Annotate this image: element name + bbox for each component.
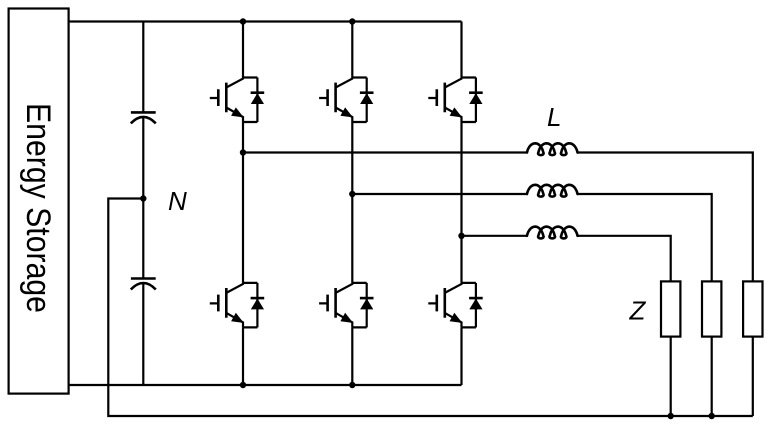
wire phase A to inductor bbox=[243, 151, 527, 153]
wire inductor L1 to load bbox=[578, 153, 753, 282]
node N junction bbox=[140, 195, 146, 201]
diode D3 (freewheel, upper leg 2) bbox=[360, 78, 374, 123]
resistor Z3 (load phase A) bbox=[743, 281, 762, 336]
junction bottom rail leg 1 bbox=[240, 382, 246, 388]
transistor Q1 (upper IGBT leg 1) bbox=[210, 78, 258, 123]
wire leg 2 middle (phase B) bbox=[351, 122, 353, 283]
svg-text:L: L bbox=[547, 102, 561, 132]
wire bottom DC rail bbox=[69, 384, 462, 386]
diode D1 (freewheel, upper leg 1) bbox=[251, 78, 265, 123]
wire leg 1 middle (phase A) bbox=[242, 122, 244, 283]
diode D5 (freewheel, upper leg 3) bbox=[469, 78, 483, 123]
node phase C junction bbox=[458, 233, 464, 239]
diode D6 (freewheel, lower leg 3) bbox=[469, 283, 483, 328]
junction bottom rail leg 2 bbox=[349, 382, 355, 388]
svg-text:Energy Storage: Energy Storage bbox=[19, 103, 57, 313]
junction top rail leg 1 bbox=[240, 18, 246, 24]
wire leg 3 middle (phase C) bbox=[460, 122, 462, 283]
junction neutral load Z2 bbox=[709, 413, 715, 419]
wire inductor L3 to load bbox=[578, 236, 671, 282]
transistor Q5 (upper IGBT leg 3) bbox=[428, 78, 476, 123]
inductor L2 (phase B) bbox=[527, 185, 578, 197]
wire capacitor branch lower bbox=[142, 283, 144, 385]
wire phase C to inductor bbox=[462, 235, 528, 237]
wire between capacitors bbox=[142, 117, 144, 279]
node phase B junction bbox=[349, 191, 355, 197]
wire neutral return bbox=[108, 199, 753, 417]
wire leg 3 top (collector) bbox=[460, 22, 462, 78]
capacitor C1 bbox=[131, 112, 156, 123]
wire top DC rail bbox=[69, 20, 462, 22]
energy storage box bbox=[9, 9, 69, 394]
wire load Z1 to neutral bbox=[670, 337, 672, 416]
junction top rail leg 2 bbox=[349, 18, 355, 24]
inductor L3 (phase C) bbox=[527, 227, 578, 239]
transistor Q6 (lower IGBT leg 3) bbox=[428, 283, 476, 328]
wire leg 2 top (collector) bbox=[351, 22, 353, 78]
wire load Z3 to neutral bbox=[752, 337, 754, 416]
wire inductor L2 to load bbox=[578, 194, 712, 281]
inductor L1 (phase A) bbox=[527, 143, 578, 155]
wire leg 1 bottom (emitter) bbox=[242, 327, 244, 385]
wire leg 1 top (collector) bbox=[242, 22, 244, 78]
node phase A junction bbox=[240, 149, 246, 155]
wire capacitor branch upper bbox=[142, 22, 144, 113]
diode D4 (freewheel, lower leg 2) bbox=[360, 283, 374, 328]
resistor Z1 (load phase C) bbox=[661, 281, 680, 336]
wire leg 2 bottom (emitter) bbox=[351, 327, 353, 385]
wire load Z2 to neutral bbox=[711, 337, 713, 416]
wire phase B to inductor bbox=[352, 193, 527, 195]
transistor Q4 (lower IGBT leg 2) bbox=[319, 283, 367, 328]
svg-text:Z: Z bbox=[629, 296, 647, 326]
svg-text:N: N bbox=[168, 186, 187, 216]
diode D2 (freewheel, lower leg 1) bbox=[251, 283, 265, 328]
transistor Q2 (lower IGBT leg 1) bbox=[210, 283, 258, 328]
wire leg 3 bottom (emitter) bbox=[460, 327, 462, 385]
capacitor C2 bbox=[131, 279, 156, 290]
resistor Z2 (load phase B) bbox=[702, 281, 721, 336]
junction neutral load Z1 bbox=[668, 413, 674, 419]
transistor Q3 (upper IGBT leg 2) bbox=[319, 78, 367, 123]
